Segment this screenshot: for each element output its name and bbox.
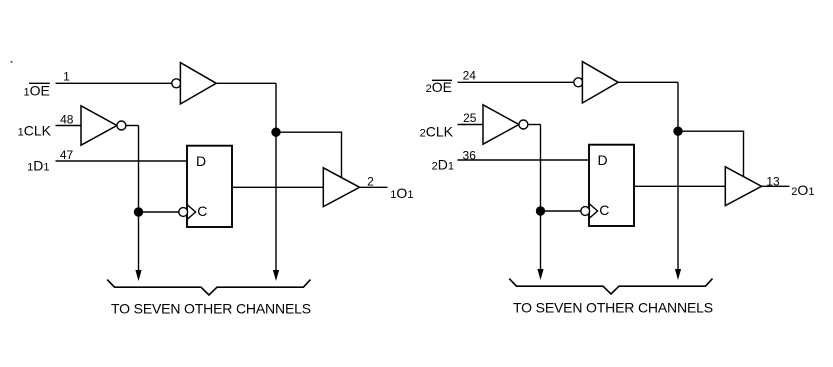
svg-text:25: 25: [463, 111, 477, 125]
svg-text:24: 24: [463, 68, 477, 82]
svg-text:48: 48: [60, 113, 74, 127]
svg-text:C: C: [599, 202, 609, 218]
svg-text:TO SEVEN OTHER CHANNELS: TO SEVEN OTHER CHANNELS: [513, 300, 713, 316]
overline for 2OE: [432, 79, 452, 81]
svg-text:13: 13: [766, 174, 780, 188]
svg-text:36: 36: [463, 148, 477, 162]
svg-text:2: 2: [367, 175, 374, 189]
svg-text:D: D: [598, 152, 608, 168]
svg-text:TO SEVEN OTHER CHANNELS: TO SEVEN OTHER CHANNELS: [111, 301, 311, 317]
svg-text:1: 1: [63, 69, 70, 83]
overline for 1OE: [29, 82, 50, 84]
svg-text:47: 47: [60, 148, 74, 162]
svg-text:C: C: [197, 203, 207, 219]
stray speck: [11, 61, 13, 63]
svg-text:D: D: [196, 153, 206, 169]
